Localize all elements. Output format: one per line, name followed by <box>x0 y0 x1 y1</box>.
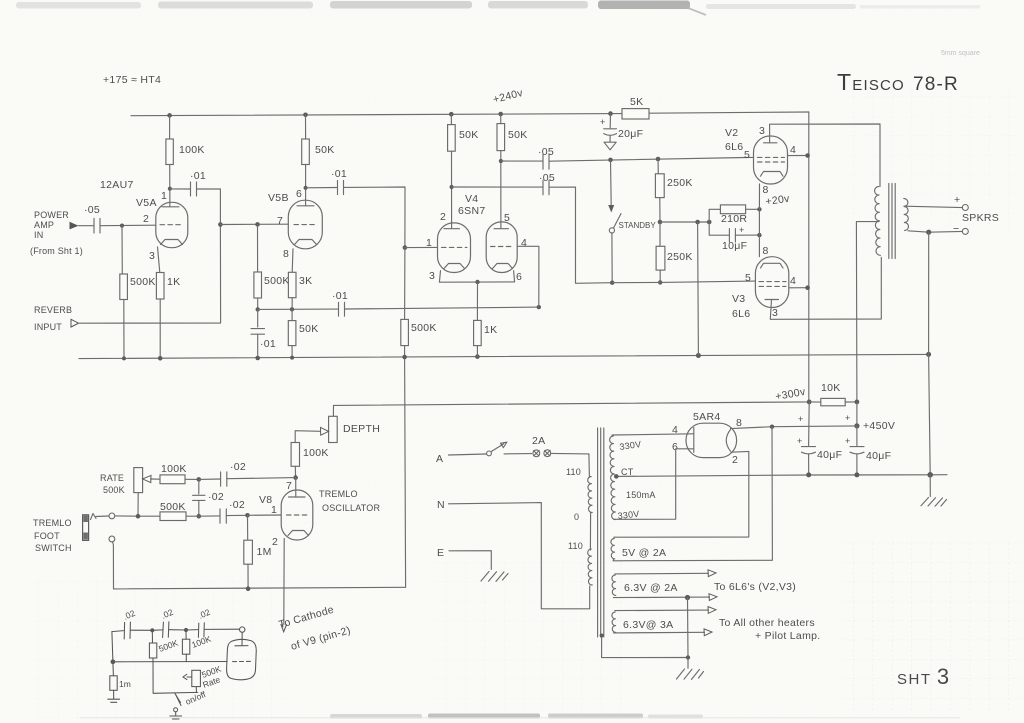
svg-text:·02: ·02 <box>229 499 245 511</box>
transformer OT primary coil <box>875 187 881 256</box>
transformer OT secondary coil <box>904 198 909 230</box>
svg-text:100K: 100K <box>179 144 205 156</box>
node rail 1Ka <box>158 356 163 361</box>
switch sketch on-off <box>175 693 181 703</box>
svg-text:STANDBY: STANDBY <box>619 221 657 230</box>
svg-text:·05: ·05 <box>84 204 100 216</box>
svg-text:500K: 500K <box>411 322 437 334</box>
node tremolo plate <box>293 475 298 480</box>
wire 250K junction row <box>660 221 709 223</box>
pin grid dash V8 <box>287 514 310 516</box>
wire 5V bottom return <box>613 427 772 561</box>
pin plate bar V4b <box>494 228 509 230</box>
svg-text:+: + <box>797 436 802 446</box>
node 250K top <box>656 157 661 162</box>
resistor 250K upper <box>657 159 659 174</box>
wire secondary plus <box>904 206 963 207</box>
svg-text:5K: 5K <box>630 96 643 108</box>
resistor sketch 1m <box>110 676 117 691</box>
pin plate bar V4a <box>444 228 460 230</box>
pin cathode V5B <box>295 240 317 245</box>
svg-text:5: 5 <box>744 149 750 161</box>
tube V4 6SN7 triode2 <box>486 222 517 273</box>
wire long vertical to tremolo rail <box>405 357 406 587</box>
node gnd 40uF2 <box>854 472 859 477</box>
resistor 1K V5A cathode <box>158 247 160 273</box>
wire V4 grid2 drop <box>517 246 539 307</box>
wire primary bottom to N <box>449 503 590 609</box>
node rail-50K V4a <box>449 112 454 117</box>
svg-text:TREMLO: TREMLO <box>33 518 72 528</box>
SECTION: sketch <box>108 607 256 719</box>
pin cathode V4a <box>444 264 465 269</box>
wire pin2 to 5V top <box>614 451 749 537</box>
capacitor .02 middle vertical <box>198 479 200 494</box>
resistor 3K V5B cathode <box>291 249 294 272</box>
switch STANDBY <box>610 160 613 206</box>
svg-text:SWITCH: SWITCH <box>35 543 72 553</box>
wire HT rail <box>131 114 622 116</box>
svg-text:1K: 1K <box>484 324 497 336</box>
svg-text:20μF: 20μF <box>618 128 643 140</box>
node V4 plate2 tap <box>499 159 503 163</box>
pin grid dash V4b <box>491 246 514 248</box>
node grid row left <box>197 514 202 519</box>
svg-text:7: 7 <box>286 480 292 492</box>
svg-text:6SN7: 6SN7 <box>458 205 485 217</box>
node sketch j2 <box>184 628 188 632</box>
ground E <box>481 572 508 582</box>
svg-text:V4: V4 <box>465 193 478 205</box>
wire switch to fuse <box>504 453 532 455</box>
pin plate bar V5A <box>162 206 179 208</box>
svg-text:12AU7: 12AU7 <box>100 179 134 191</box>
wire cathode net y309 <box>258 308 338 310</box>
pin cathode V8 <box>288 531 309 536</box>
capacitor .02 upper <box>199 478 220 480</box>
wire grid V5B <box>220 223 288 225</box>
svg-text:210R: 210R <box>721 213 747 225</box>
pin plate bars 5AR4 <box>693 428 695 453</box>
resistor 100K tremolo fb <box>160 475 185 484</box>
svg-text:OSCILLATOR: OSCILLATOR <box>322 503 380 513</box>
svg-text:+: + <box>739 225 744 235</box>
node standby bottom <box>610 281 614 285</box>
node spkr minus <box>926 230 931 235</box>
node 3K bottom <box>290 307 294 311</box>
svg-text:DEPTH: DEPTH <box>343 423 380 435</box>
svg-text:250K: 250K <box>667 177 693 189</box>
svg-text:1: 1 <box>271 504 277 516</box>
svg-text:4: 4 <box>790 275 796 287</box>
svg-text:V3: V3 <box>732 293 745 305</box>
node V4 grid2 <box>537 305 541 309</box>
node V2 screen <box>805 153 810 158</box>
capacitor .02 grid <box>199 515 220 517</box>
node CT <box>614 474 619 479</box>
resistor 50K V4 plate1 <box>450 114 452 124</box>
svg-text:3: 3 <box>429 270 435 282</box>
capacitor sketch .02 a <box>124 622 130 639</box>
node V4 cathode <box>475 280 479 284</box>
svg-text:·02: ·02 <box>230 461 246 473</box>
svg-text:5V @ 2A: 5V @ 2A <box>622 547 666 559</box>
node V5B grid 500K <box>255 222 260 227</box>
switch mains <box>487 451 492 456</box>
resistor 210R <box>709 209 720 222</box>
resistor 50K below V5B <box>291 309 293 320</box>
wire V4 cathodes common <box>439 271 514 283</box>
pin cathode V5A <box>161 240 183 245</box>
wire V2-V3 cathode <box>758 184 760 257</box>
tube 5AR4 rectifier <box>686 423 737 457</box>
resistor 250K lower <box>659 222 661 246</box>
capacitor .01 to V4 grid2 <box>339 302 345 316</box>
node V4 plate1 tap <box>450 185 454 189</box>
svg-text:110: 110 <box>568 541 583 551</box>
svg-text:6: 6 <box>296 188 302 200</box>
resistor 500K grid row <box>160 512 186 521</box>
wire A to switch <box>449 454 487 455</box>
wire HT rail right of 5K <box>649 112 809 113</box>
svg-text:50K: 50K <box>299 323 319 335</box>
svg-text:7: 7 <box>277 215 283 227</box>
svg-text:CT: CT <box>621 467 634 477</box>
svg-text:8: 8 <box>763 245 769 257</box>
tube V5A 12AU7a <box>156 202 188 247</box>
transformer OT core <box>889 184 895 259</box>
svg-text:500K: 500K <box>103 485 125 495</box>
svg-text:100K: 100K <box>161 463 187 475</box>
wire to V8 grid <box>248 514 282 516</box>
svg-text:+450V: +450V <box>863 420 895 432</box>
pin filament arc 5AR4 <box>726 430 730 452</box>
svg-text:6L6: 6L6 <box>732 308 750 320</box>
svg-text:·01: ·01 <box>332 290 348 302</box>
transformer PT 6.3V3A winding <box>612 612 616 632</box>
svg-text:·05: ·05 <box>539 172 555 184</box>
svg-text:+: + <box>845 413 850 423</box>
wire sleeve to rail <box>113 542 114 589</box>
tube sketch <box>227 639 257 679</box>
potentiometer RATE 500K <box>134 468 143 493</box>
ground main <box>929 475 931 497</box>
resistor 500K V5B grid <box>257 224 259 272</box>
potentiometer sketch 500K rate <box>192 670 201 686</box>
wire x698 vertical <box>697 222 700 356</box>
input arrow PowerAmpIn <box>70 222 79 230</box>
node rate bottom <box>136 514 141 519</box>
tube V4 6SN7 triode1 <box>438 223 471 273</box>
svg-text:6.3V@ 3A: 6.3V@ 3A <box>623 619 673 631</box>
wire V3 plate to OT <box>770 257 881 319</box>
pin plate bar V5B <box>297 205 314 207</box>
wire 6.3V3A top arrow <box>615 609 709 612</box>
wire V8 cathode arrow <box>283 539 285 625</box>
svg-text:+: + <box>845 436 850 446</box>
capacitor .01 bypass vertical <box>257 309 259 327</box>
node +450V <box>854 423 859 428</box>
wire 6.3V2A top arrow <box>615 572 709 575</box>
wire E to ground <box>449 551 491 570</box>
svg-text:+175 ≈ HT4: +175 ≈ HT4 <box>103 74 161 86</box>
svg-text:2: 2 <box>272 536 278 548</box>
svg-text:+ Pilot Lamp.: + Pilot Lamp. <box>755 630 820 642</box>
terminal jack tip <box>109 513 115 519</box>
svg-text:5AR4: 5AR4 <box>693 411 720 423</box>
resistor sketch 100K <box>185 630 187 639</box>
resistor 100K tremolo plate <box>291 443 299 467</box>
wire +300V feed <box>334 402 810 406</box>
svg-text:150mA: 150mA <box>626 490 656 500</box>
svg-text:INPUT: INPUT <box>34 322 62 332</box>
ground heater <box>687 658 689 669</box>
wire tip to grid row <box>115 515 160 517</box>
pin grid dashes V2 <box>758 156 785 158</box>
capacitor 10uF <box>709 222 729 235</box>
svg-text:6: 6 <box>516 271 522 283</box>
svg-text:50K: 50K <box>315 144 335 156</box>
svg-text:V5A: V5A <box>136 197 157 209</box>
wire primary link <box>589 512 591 550</box>
node 5V return tap <box>770 425 774 429</box>
wire heater ground drop <box>687 598 690 658</box>
svg-text:·05: ·05 <box>538 146 554 158</box>
svg-text:RATE: RATE <box>100 473 124 483</box>
svg-text:1m: 1m <box>119 679 131 689</box>
svg-text:To All other heaters: To All other heaters <box>719 617 815 629</box>
node core gnd <box>600 634 604 638</box>
pin cathode V2 <box>761 172 784 177</box>
wiper arrow RATE <box>151 478 160 480</box>
resistor sketch 500K <box>151 630 153 643</box>
node rail bypass <box>255 356 260 361</box>
node sketch j1 <box>150 628 154 632</box>
svg-text:TREMLO: TREMLO <box>319 489 358 499</box>
wire rectifier cathode to +450 <box>731 426 857 429</box>
ground sketch 1m <box>108 699 120 702</box>
svg-text:5: 5 <box>745 272 751 284</box>
svg-text:5mm square: 5mm square <box>941 50 980 57</box>
wire to V4 grid1 <box>405 246 438 248</box>
svg-text:2: 2 <box>440 211 446 223</box>
resistor 10K <box>821 398 845 405</box>
svg-text:10μF: 10μF <box>722 240 747 252</box>
resistor 50K V5B plate <box>305 115 307 139</box>
node 250K junction <box>658 220 663 225</box>
node 210R left <box>707 220 712 225</box>
pin sketch plate <box>235 632 248 646</box>
transformer PT primary coil upper 110 <box>588 454 591 478</box>
wire V2 plate to OT <box>770 124 880 187</box>
node input grid <box>120 224 124 228</box>
resistor 500K V5A grid <box>121 226 123 274</box>
svg-text:6.3V @ 2A: 6.3V @ 2A <box>624 582 678 594</box>
svg-text:50K: 50K <box>508 129 528 141</box>
svg-text:V2: V2 <box>725 127 738 139</box>
svg-text:A: A <box>436 453 443 465</box>
wire sketch top row <box>112 631 124 632</box>
pin grid dash V5B <box>294 224 317 226</box>
resistor 1K V4 cathode <box>476 282 478 320</box>
pin plate bar V2 <box>764 142 778 144</box>
svg-text:To 6L6's (V2,V3): To 6L6's (V2,V3) <box>714 581 796 593</box>
wire sketch left vertical <box>112 632 114 676</box>
svg-text:AMP: AMP <box>34 220 54 230</box>
transformer PT core <box>598 428 604 637</box>
svg-text:FOOT: FOOT <box>34 531 60 541</box>
node standby top <box>608 158 613 163</box>
svg-text:5: 5 <box>504 212 510 224</box>
node heater gnd <box>685 595 690 600</box>
svg-text:1: 1 <box>426 237 432 249</box>
svg-text:2: 2 <box>143 213 149 225</box>
svg-text:IN: IN <box>34 230 43 240</box>
node 10K right <box>855 400 860 405</box>
pin grid dash V4a <box>442 246 468 248</box>
svg-text:40μF: 40μF <box>866 450 891 462</box>
svg-text:4: 4 <box>521 237 527 249</box>
svg-text:1K: 1K <box>167 276 180 288</box>
resistor 5K rail <box>622 109 649 119</box>
tube V8 tremolo oscillator <box>281 490 313 540</box>
transformer PT primary coil lower 110 <box>588 549 593 585</box>
svg-text:8: 8 <box>736 417 742 429</box>
svg-text:+: + <box>600 117 605 127</box>
svg-text:250K: 250K <box>667 251 693 263</box>
capacitor sketch .02 b <box>152 629 162 631</box>
svg-text:(From Sht 1): (From Sht 1) <box>30 246 83 256</box>
resistor 1M V8 grid <box>247 515 249 540</box>
node 500K-bypass junction <box>256 307 260 311</box>
wire secondary minus <box>908 231 963 232</box>
transformer PT 5V winding <box>611 539 615 559</box>
svg-text:500K: 500K <box>160 501 186 513</box>
svg-text:40μF: 40μF <box>817 449 842 461</box>
transformer OT tap wire <box>856 222 878 402</box>
svg-text:·01: ·01 <box>331 168 347 180</box>
svg-text:+: + <box>954 194 960 206</box>
node gnd 40uF1 <box>806 472 811 477</box>
svg-text:4: 4 <box>790 144 796 156</box>
terminal spkr plus <box>962 205 968 211</box>
svg-text:500K: 500K <box>264 275 290 287</box>
svg-text:3: 3 <box>759 125 765 137</box>
node V3 grid row <box>658 280 662 284</box>
node rail 500Ka <box>122 356 126 360</box>
node 1M bottom <box>246 586 251 591</box>
node rail spkr <box>926 352 931 357</box>
svg-text:POWER: POWER <box>34 210 69 220</box>
svg-text:3: 3 <box>772 307 778 319</box>
pin plate bar V3 <box>765 299 779 301</box>
transformer PT 6.3V2A winding <box>612 575 616 595</box>
wire HT bottom to pin6 <box>614 449 694 520</box>
node heater gnd rail <box>686 655 690 659</box>
svg-text:−: − <box>953 223 959 235</box>
pin grid dash V5A <box>160 224 183 226</box>
wire 6.3V2A bottom arrow <box>613 596 709 599</box>
svg-text:1M: 1M <box>257 546 272 558</box>
node V5B grid left <box>218 222 223 227</box>
svg-text:500K: 500K <box>130 276 156 288</box>
svg-text:2A: 2A <box>532 435 545 447</box>
wire reverb to V5B grid <box>79 225 221 324</box>
node V8 grid <box>245 513 250 518</box>
svg-text:10K: 10K <box>821 382 841 394</box>
terminal jack sleeve <box>109 536 115 542</box>
pin sketch grid dash <box>233 660 252 662</box>
svg-text:+: + <box>798 414 803 424</box>
svg-text:REVERB: REVERB <box>34 305 72 315</box>
tube V5B 12AU7b <box>288 200 322 249</box>
svg-text:V5B: V5B <box>268 192 289 204</box>
svg-text:N: N <box>437 499 445 511</box>
svg-text:0: 0 <box>574 512 579 522</box>
node V2 cathode 210R <box>757 207 761 211</box>
svg-text:2: 2 <box>732 454 738 466</box>
node V2 cathode 10uF <box>757 233 761 237</box>
svg-text:3K: 3K <box>299 275 312 287</box>
svg-text:·01: ·01 <box>190 170 206 182</box>
resistor 500K V4 grid <box>404 248 406 320</box>
wire V8 plate lead <box>295 478 297 497</box>
wire V3 grid row <box>612 281 755 283</box>
pin cathode V4b <box>493 264 513 269</box>
wire 6.3V3A bottom arrow <box>613 631 704 634</box>
pin cathode V3 <box>761 263 784 268</box>
wire spkr minus down <box>929 232 931 475</box>
svg-text:·02: ·02 <box>208 491 224 503</box>
node gnd spkr <box>927 472 933 478</box>
node rail 500Kv4 <box>402 355 407 360</box>
svg-text:SPKRS: SPKRS <box>962 212 999 224</box>
svg-text:6: 6 <box>672 441 678 453</box>
node fb junction <box>197 477 202 482</box>
node +300V <box>807 400 812 405</box>
wire PSU ground rail <box>617 475 947 477</box>
wire B+ to +450 node <box>856 402 858 426</box>
node V3 screen <box>805 285 810 290</box>
node V5B plate tap <box>304 186 308 190</box>
svg-text:110: 110 <box>566 467 581 477</box>
potentiometer DEPTH <box>332 405 334 416</box>
wire V3 screen <box>789 287 808 289</box>
tube V3 6L6 <box>755 257 788 308</box>
terminal spkr minus <box>962 228 968 234</box>
svg-text:1: 1 <box>161 190 167 202</box>
wire fuse to primary <box>551 452 589 455</box>
svg-text:8: 8 <box>763 184 769 196</box>
node rail 50Kb <box>290 356 294 360</box>
svg-text:100K: 100K <box>303 447 329 459</box>
wire screen-feed vertical <box>808 112 810 402</box>
transformer PT HT secondary coil <box>610 436 616 520</box>
svg-text:·01: ·01 <box>260 338 276 350</box>
node rail-5K <box>608 111 613 116</box>
terminal sketch plate <box>240 627 245 632</box>
svg-text:50K: 50K <box>459 129 479 141</box>
node x698 top <box>695 220 700 225</box>
capacitor .01 V5B plate coupling <box>306 187 337 189</box>
pin plate bar V8 <box>289 496 306 498</box>
tube V2 6L6 <box>754 136 788 184</box>
node rail 1Kv4 <box>475 354 480 359</box>
node rail x698 <box>696 353 701 358</box>
svg-text:3: 3 <box>149 250 155 262</box>
resistor 50K V4 plate2 <box>500 114 502 124</box>
wire V2 screen <box>788 155 808 157</box>
